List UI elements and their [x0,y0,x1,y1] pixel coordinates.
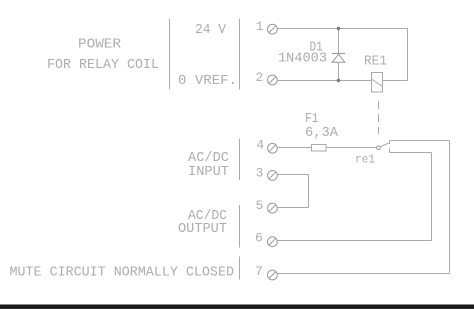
svg-text:OUTPUT: OUTPUT [178,221,227,237]
svg-text:6,3A: 6,3A [305,125,339,141]
svg-text:5: 5 [256,198,264,213]
svg-text:RE1: RE1 [364,53,387,69]
svg-text:7: 7 [255,264,263,279]
svg-text:24 V: 24 V [195,22,227,38]
svg-text:3: 3 [256,165,264,180]
svg-text:1: 1 [256,19,264,34]
svg-text:6: 6 [255,231,263,246]
svg-text:POWER: POWER [78,37,122,53]
svg-text:1N4003: 1N4003 [278,50,327,66]
svg-text:FOR RELAY COIL: FOR RELAY COIL [47,57,159,73]
svg-text:0 VREF.: 0 VREF. [178,73,237,89]
svg-text:INPUT: INPUT [188,164,229,180]
svg-text:re1: re1 [355,153,375,167]
svg-text:2: 2 [256,70,264,85]
svg-text:MUTE CIRCUIT NORMALLY CLOSED: MUTE CIRCUIT NORMALLY CLOSED [10,265,235,281]
svg-text:4: 4 [256,138,264,153]
